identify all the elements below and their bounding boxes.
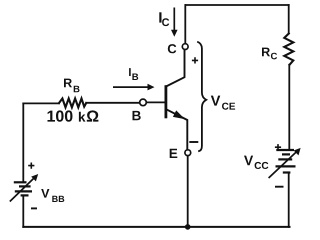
battery VBB variable arrow [10, 174, 38, 202]
terminal E circle [185, 150, 191, 156]
wire collector riser to top rail [184, 5, 186, 43]
terminal C circle [182, 44, 188, 50]
wire right rail upper [288, 5, 290, 34]
label VCE [211, 96, 221, 106]
wire bottom horizontal [23, 226, 289, 228]
resistor RB zigzag [59, 99, 86, 108]
label B [133, 111, 141, 120]
wire emitter drop to bottom rail [187, 156, 189, 227]
transistor emitter arrowhead [173, 110, 185, 119]
label IC [159, 12, 161, 22]
battery VBB minus sign [31, 207, 37, 209]
label 100 kOhm [48, 110, 73, 121]
battery VCC minus sign [275, 186, 284, 188]
wire top horizontal [185, 4, 288, 6]
wire base terminal to transistor [146, 101, 165, 103]
transistor base bar [164, 85, 167, 118]
VCE minus sign [189, 141, 198, 143]
label VCC [244, 156, 253, 166]
wire left rail lower [22, 196, 24, 227]
label VBB [41, 189, 49, 198]
label C [168, 44, 177, 53]
label RB [64, 79, 72, 88]
VCE brace [197, 42, 206, 152]
battery VBB plates [14, 182, 32, 195]
wire left rail upper [22, 103, 24, 182]
resistor RC zigzag [284, 34, 293, 65]
transistor emitter lead [166, 109, 187, 149]
battery VBB plus sign [28, 163, 34, 169]
current arrow IB [113, 84, 155, 91]
label E [170, 149, 178, 158]
label RC [262, 48, 270, 57]
junction dot emitter/bottom rail [185, 224, 191, 230]
transistor Q1 [166, 50, 187, 150]
wire right rail middle [288, 65, 290, 150]
wire RB left [23, 102, 59, 104]
wire RB to base terminal [86, 102, 140, 104]
VCE plus sign [192, 57, 198, 63]
wire right rail lower [288, 173, 290, 227]
battery VCC plus sign [275, 144, 281, 150]
current arrow IC [171, 8, 178, 37]
terminal B circle [140, 99, 147, 106]
battery VCC plates [276, 150, 296, 173]
battery VCC variable arrow [269, 148, 301, 178]
transistor collector lead [166, 50, 185, 87]
label IB [129, 68, 131, 76]
